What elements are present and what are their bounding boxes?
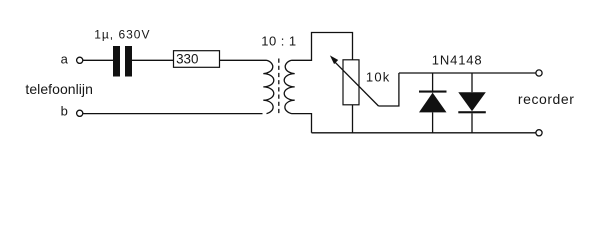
svg-text:a: a [61, 51, 69, 66]
svg-text:b: b [61, 104, 68, 119]
wire secondary top to pot [292, 33, 353, 61]
transformer T1 secondary winding [284, 60, 295, 113]
svg-text:recorder: recorder [518, 91, 575, 107]
wire capacitor to resistor [132, 59, 174, 61]
wire wiper to top rail [379, 73, 399, 106]
svg-text:10 : 1: 10 : 1 [261, 34, 296, 49]
wire b to transformer [83, 113, 263, 115]
transformer core [278, 59, 280, 116]
potentiometer P1 box [343, 60, 359, 105]
node b terminal [77, 110, 83, 116]
resistor R1 330 box [174, 51, 220, 68]
wire pot bottom to rail [352, 105, 354, 133]
wire resistor to transformer [220, 59, 267, 61]
top rail [399, 72, 536, 74]
node a terminal [77, 57, 83, 63]
capacitor C1 plates [113, 46, 120, 77]
wire secondary bottom to rail [292, 114, 312, 133]
recorder bottom terminal [536, 130, 542, 136]
svg-text:10k: 10k [366, 69, 391, 84]
svg-text:1N4148: 1N4148 [432, 52, 483, 67]
potentiometer wiper arrow [335, 62, 379, 106]
svg-text:telefoonlijn: telefoonlijn [25, 81, 93, 97]
svg-text:330: 330 [176, 51, 198, 66]
bottom rail [312, 132, 536, 134]
diode D1 1N4148 (pointing up) [432, 73, 434, 93]
transformer T1 primary winding [263, 60, 274, 113]
svg-text:1µ, 630V: 1µ, 630V [94, 27, 150, 41]
wire a to capacitor [83, 59, 113, 61]
diode D2 1N4148 (pointing down) [471, 73, 473, 92]
recorder top terminal [536, 70, 542, 76]
